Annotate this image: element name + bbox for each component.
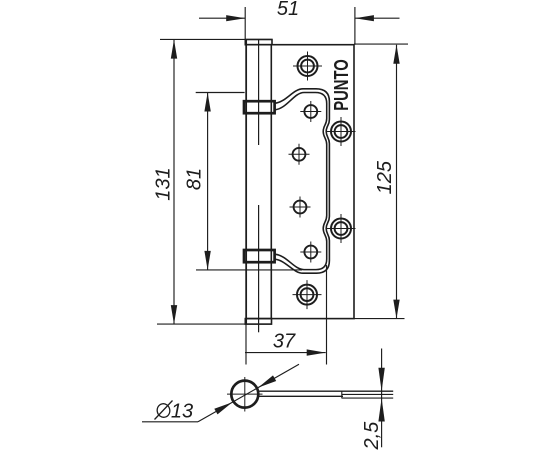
svg-text:PUNTO: PUNTO	[330, 59, 353, 110]
small hole 2	[293, 148, 306, 161]
section: leaf plates	[258, 391, 393, 398]
svg-text:81: 81	[184, 168, 206, 190]
small hole 3	[294, 201, 307, 214]
barrel right edge	[270, 45, 272, 319]
pin axis line	[258, 40, 260, 145]
screw hole right lower (double circle)	[331, 219, 351, 239]
diameter leader line	[142, 364, 299, 422]
lower knuckle sleeve	[244, 250, 275, 262]
screw hole top (double circle)	[298, 56, 318, 76]
barrel top cap	[245, 40, 272, 45]
small hole 4	[304, 246, 317, 259]
barrel bottom cap	[245, 319, 271, 325]
dimension 81	[196, 93, 302, 270]
dimension 131	[157, 39, 272, 324]
screw hole bottom (double circle)	[297, 285, 317, 305]
dimension 37	[245, 265, 327, 365]
barrel left edge	[245, 40, 247, 325]
svg-text:37: 37	[273, 331, 296, 353]
diameter symbol	[155, 401, 173, 420]
screw hole right upper (double circle)	[331, 122, 351, 142]
dimension 51	[199, 7, 400, 45]
over-leaf contour inner line	[275, 93, 327, 270]
section: pin circle	[231, 381, 258, 408]
over-leaf contour outer line	[275, 89, 330, 273]
dimension 125	[354, 44, 408, 319]
plate (under leaf) outline	[246, 45, 354, 319]
svg-text:125: 125	[374, 160, 396, 194]
dimension 2,5	[381, 349, 383, 448]
upper knuckle sleeve	[244, 101, 275, 113]
svg-text:13: 13	[171, 401, 193, 423]
svg-text:51: 51	[277, 0, 299, 20]
svg-text:131: 131	[153, 167, 175, 200]
svg-text:2,5: 2,5	[361, 421, 383, 450]
small hole 1	[304, 105, 317, 118]
